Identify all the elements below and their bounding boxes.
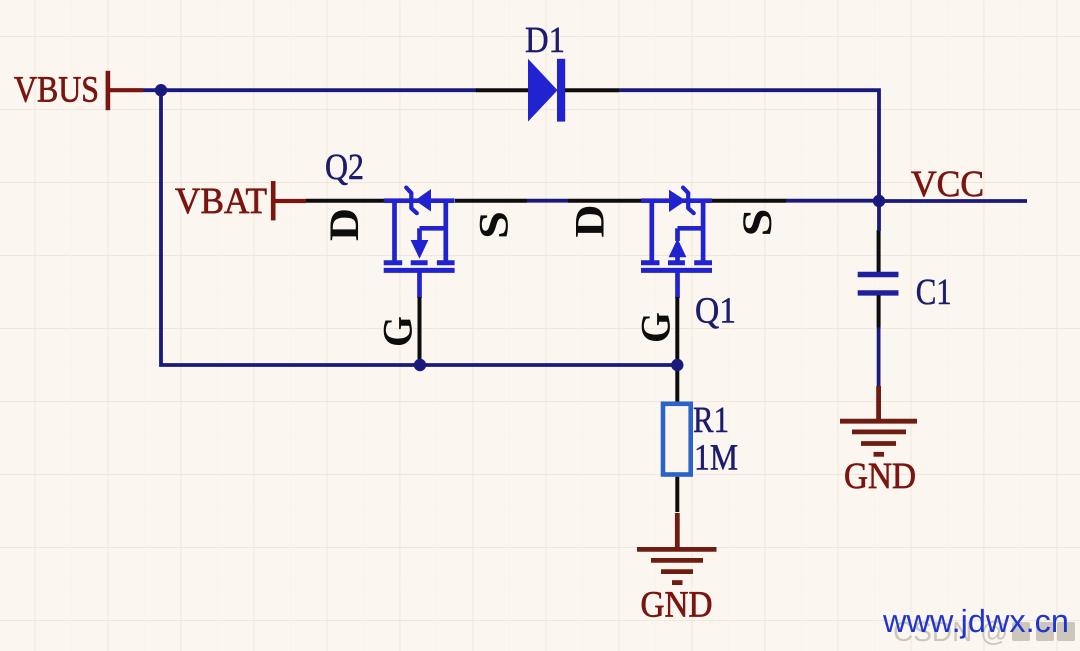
wire Q1 gate down (black pin) <box>675 297 679 365</box>
body diode of Q2 <box>406 188 431 214</box>
svg-text:D: D <box>568 205 614 238</box>
svg-text:G: G <box>633 312 679 343</box>
svg-text:www.jdwx.cn: www.jdwx.cn <box>882 603 1069 639</box>
wire gate bus <box>420 363 677 367</box>
wire D1 to VCC node <box>619 90 879 201</box>
junction node VBUS <box>155 84 167 96</box>
wire C1 to ground <box>877 328 881 387</box>
capacitor C1 <box>858 275 899 293</box>
junction node VCC <box>873 195 885 207</box>
junction node Q1 gate <box>671 359 683 371</box>
svg-text:D: D <box>322 208 368 241</box>
wire VCC stub right <box>879 199 1027 203</box>
transistor Q1 <box>641 201 712 298</box>
diode D1 pin 1 (anode, black) <box>476 88 529 92</box>
svg-text:C1: C1 <box>916 272 952 313</box>
svg-text:D1: D1 <box>525 20 565 61</box>
junction node Q2 gate <box>414 359 426 371</box>
wire Q2 S to Q1 D <box>455 199 527 203</box>
svg-text:VBAT: VBAT <box>175 181 267 222</box>
transistor Q2 <box>384 201 455 298</box>
wire Q2 gate down (black pin) <box>418 297 422 365</box>
diode D1 <box>528 59 565 122</box>
svg-text:Q2: Q2 <box>325 147 364 188</box>
wire VBUS to D1 anode <box>143 88 477 92</box>
resistor R1 <box>663 404 691 475</box>
port VBUS <box>14 70 143 111</box>
diode D1 pin 2 (cathode, black) <box>565 88 619 92</box>
resistor R1 pin 1 (black) <box>675 365 679 402</box>
capacitor C1 pin 1 (black) <box>877 230 881 272</box>
wire VBUS down left side <box>161 90 420 365</box>
transistor Q1 pin S (black) <box>712 199 786 203</box>
wire Q1 S to VCC node <box>786 199 879 203</box>
svg-text:GND: GND <box>641 585 713 626</box>
body diode of Q1 <box>669 188 694 214</box>
svg-text:S: S <box>735 209 781 237</box>
capacitor C1 pin 2 (black) <box>877 295 881 327</box>
svg-text:G: G <box>376 316 422 347</box>
ground symbol below R1 <box>637 513 717 583</box>
svg-text:Q1: Q1 <box>695 291 736 332</box>
transistor Q2 pin D (black) <box>306 199 384 203</box>
svg-text:R1: R1 <box>693 400 729 441</box>
svg-text:GND: GND <box>844 456 916 497</box>
svg-text:VCC: VCC <box>911 164 984 205</box>
svg-text:S: S <box>472 211 518 239</box>
resistor R1 pin 2 (black) <box>675 477 679 512</box>
ground symbol below C1 <box>840 386 917 454</box>
svg-text:VBUS: VBUS <box>14 70 99 111</box>
svg-text:1M: 1M <box>694 438 738 479</box>
port VBAT <box>175 181 306 222</box>
